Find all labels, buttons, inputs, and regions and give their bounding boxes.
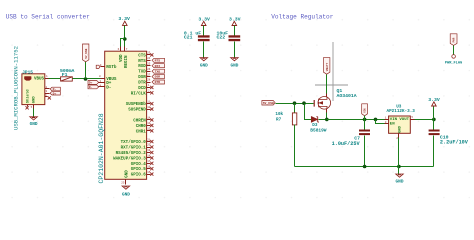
connector pin 2 stub <box>45 88 50 90</box>
svg-text:TXT/GPIO.0: TXT/GPIO.0 <box>121 140 147 145</box>
IC pin 18 WAKEUP/GPIO.3 stub <box>147 157 151 159</box>
svg-text:20: 20 <box>147 144 151 147</box>
no-connect X on GPIO.6 <box>150 173 153 176</box>
connector pin 4 ID stub <box>45 96 48 98</box>
connector pin 3 stub <box>45 93 50 95</box>
IC pin 11 SUSPENDb stub <box>147 103 151 105</box>
IC pin 12 CHR1 stub <box>147 130 151 132</box>
supply 3.3V at regulator output <box>432 102 437 106</box>
wire D3 branch down <box>305 104 312 120</box>
svg-text:CHR0: CHR0 <box>136 125 147 129</box>
svg-text:5V_USB: 5V_USB <box>263 101 274 105</box>
svg-text:13: 13 <box>147 122 151 125</box>
net flag VIN above C7 node <box>362 104 368 116</box>
IC pin 28 DTR stub <box>147 82 151 84</box>
Q1 drain pin stub <box>326 109 328 113</box>
frame mark horizontal line <box>315 84 348 86</box>
wire EN branch <box>376 120 385 124</box>
IC pin 16 GPIO.5 stub <box>147 168 151 170</box>
ground under IC <box>122 186 130 189</box>
svg-text:3.3V: 3.3V <box>428 97 440 103</box>
svg-text:AP2112K-3.3: AP2112K-3.3 <box>387 109 416 114</box>
svg-text:GND: GND <box>122 192 130 197</box>
svg-text:R7: R7 <box>276 117 282 122</box>
svg-text:GND: GND <box>399 125 403 133</box>
connector shield pin stub <box>27 105 29 107</box>
svg-text:12: 12 <box>147 128 151 131</box>
U3 pin 2 GND stub <box>398 134 400 138</box>
IC pin 26 TXD stub <box>147 71 151 73</box>
net label RXI <box>152 64 165 68</box>
svg-text:CHR1: CHR1 <box>136 130 147 134</box>
svg-text:REGIN: REGIN <box>125 55 129 68</box>
svg-text:TXO: TXO <box>155 69 161 73</box>
svg-text:RI/CLK: RI/CLK <box>131 91 147 96</box>
no-connect X on RS485/GPIO.2 <box>150 151 153 154</box>
net label RTS <box>152 58 165 62</box>
connector pin 1 VBUS stub <box>45 78 49 80</box>
wire 5V_USB to gate <box>276 103 314 105</box>
IC pin 14 CHREN stub <box>147 119 151 121</box>
svg-text:D+: D+ <box>89 81 93 85</box>
no-connect X on TXT/GPIO.0 <box>150 140 153 143</box>
svg-text:RXT/GPIO.1: RXT/GPIO.1 <box>121 146 147 151</box>
wire VBUS to fuse <box>49 78 61 80</box>
svg-text:Voltage Regulator: Voltage Regulator <box>271 13 334 20</box>
no-connect X on GPIO.4 <box>150 162 153 165</box>
svg-text:CTS: CTS <box>138 54 146 58</box>
svg-text:10k: 10k <box>275 112 283 117</box>
svg-text:D+: D+ <box>53 91 57 95</box>
svg-text:10: 10 <box>147 106 151 109</box>
svg-text:VBUS: VBUS <box>34 78 45 82</box>
wire junction to R7 <box>294 104 296 113</box>
wire C21 to ground <box>203 42 205 58</box>
junction C7 ground <box>363 165 367 169</box>
svg-text:RS485/GPIO.2: RS485/GPIO.2 <box>116 151 147 156</box>
U3 pin 5 VOUT stub <box>411 119 415 121</box>
svg-text:F1: F1 <box>62 72 68 78</box>
no-connect X on WAKEUP/GPIO.3 <box>150 156 153 159</box>
svg-text:3.3V: 3.3V <box>229 16 241 22</box>
ground under U3 <box>396 174 404 177</box>
junction R7 tap <box>293 101 297 105</box>
IC pin 3 D+ stub <box>99 82 105 84</box>
wire U3 VOUT to 3.3V node <box>415 119 434 121</box>
svg-text:25: 25 <box>121 182 125 185</box>
wire 3.3V to C21 <box>203 26 205 36</box>
IC pin 6 VDD stub <box>120 47 122 52</box>
no-connect X on CHR0 <box>150 124 153 127</box>
svg-text:11: 11 <box>147 100 151 103</box>
power flag PWR_FLAG <box>450 34 457 46</box>
svg-text:GPIO.5: GPIO.5 <box>131 168 147 172</box>
wire rail to ground symbol <box>398 167 400 175</box>
svg-text:RXI: RXI <box>155 64 161 68</box>
IC pin 1 DCD stub <box>147 87 151 89</box>
supply 3.3V above C22 <box>232 21 237 25</box>
net label TXO <box>152 69 165 73</box>
svg-text:D-: D- <box>106 85 111 90</box>
wire 3.3V arrow to VOUT node <box>433 107 435 120</box>
no-connect X on DCD <box>150 86 153 89</box>
no-connect X on ID pin <box>48 96 51 99</box>
wire fuse to IC VBUS <box>73 78 105 80</box>
wire C22 to ground <box>234 42 236 58</box>
svg-text:GND: GND <box>200 63 208 68</box>
net label DTR <box>152 80 165 84</box>
IC pin 10 SUSPEND stub <box>147 109 151 111</box>
no-connect X on shield pin <box>26 106 29 109</box>
svg-text:B5819W: B5819W <box>310 127 327 133</box>
supply 3.3V above IC <box>123 21 128 25</box>
supply 3.3V above C21 <box>201 21 206 25</box>
no-connect X on CHR1 <box>150 129 153 132</box>
wire branch to VDD pin <box>121 39 125 47</box>
IC pin 7 REGIN stub <box>124 47 126 52</box>
svg-text:GND: GND <box>126 170 130 178</box>
svg-text:3.3V: 3.3V <box>118 16 130 22</box>
wire U3 GND to rail <box>398 138 400 167</box>
svg-text:26: 26 <box>147 68 151 71</box>
wire drain node to U3 VIN <box>327 119 385 121</box>
wire VIN flag to node <box>364 116 366 120</box>
IC pin 8 VBUS stub <box>101 78 105 80</box>
ground under C22 <box>231 58 239 61</box>
IC pin 9 RSTb stub <box>101 66 105 68</box>
IC pin 27 DSR stub <box>147 76 151 78</box>
regulator U3 body <box>389 116 411 133</box>
wire VBATT to Q1 source <box>326 75 328 94</box>
wire VBUS junction up to flag <box>85 62 87 79</box>
svg-text:23: 23 <box>147 52 151 55</box>
svg-text:SUSPENDb: SUSPENDb <box>126 102 147 107</box>
svg-text:PWR_FLAG: PWR_FLAG <box>445 61 462 65</box>
svg-text:VBATT: VBATT <box>326 62 329 71</box>
svg-text:GPIO.6: GPIO.6 <box>131 174 147 178</box>
svg-text:PWR: PWR <box>453 37 456 42</box>
junction U3 ground <box>397 165 401 169</box>
svg-text:VIN: VIN <box>364 108 367 113</box>
wire ground rail <box>295 166 434 168</box>
capacitor C7 <box>359 130 370 136</box>
IC pin 4 D- stub <box>99 86 105 88</box>
PWR_FLAG pin circle <box>452 55 456 59</box>
USB logo icon <box>24 76 31 80</box>
fuse F1 <box>61 77 73 81</box>
svg-text:28: 28 <box>147 79 151 82</box>
svg-text:DSR: DSR <box>138 76 146 80</box>
U3 pin 1 VIN stub <box>385 119 389 121</box>
svg-text:GPIO.4: GPIO.4 <box>131 163 147 167</box>
wire R7 to ground rail <box>294 125 296 167</box>
no-connect X on CTS <box>150 53 153 56</box>
IC pin 17 GPIO.4 stub <box>147 163 151 165</box>
svg-text:18: 18 <box>147 155 151 158</box>
wire VIN node to C7 <box>364 120 366 130</box>
junction EN tap <box>374 118 378 122</box>
svg-text:RXD: RXD <box>138 65 146 69</box>
net label DSR <box>152 75 165 79</box>
svg-text:DTR: DTR <box>155 80 161 84</box>
junction VOUT node <box>432 118 436 122</box>
resistor R7 <box>292 113 296 125</box>
svg-text:TXD: TXD <box>138 71 146 75</box>
svg-text:GND: GND <box>396 179 404 184</box>
net label to IC D+ <box>88 81 99 85</box>
wire 3.3V to C22 <box>234 26 236 36</box>
wire VOUT node to C10 <box>433 120 435 130</box>
junction VDD branch <box>123 37 127 41</box>
no-connect X on CHREN <box>150 118 153 121</box>
junction C7 tap <box>363 118 367 122</box>
svg-text:5V_USB: 5V_USB <box>85 48 88 58</box>
no-connect X on SUSPENDb <box>150 102 153 105</box>
no-connect X on GPIO.5 <box>150 167 153 170</box>
svg-text:AO3401A: AO3401A <box>337 93 357 99</box>
supply flag 5V_USB (left) <box>83 44 89 62</box>
svg-text:DCD: DCD <box>138 87 146 91</box>
svg-text:C22: C22 <box>217 35 226 41</box>
tiny net flag on RSTb <box>96 65 100 68</box>
svg-text:DTR: DTR <box>138 82 146 86</box>
svg-text:VDD: VDD <box>120 54 124 62</box>
no-connect X on RXT/GPIO.1 <box>150 145 153 148</box>
transistor Q1 AO3401A <box>314 97 330 110</box>
svg-text:JP15: JP15 <box>22 70 33 75</box>
net flag VBATT above Q1 <box>324 58 330 75</box>
svg-text:SUSPEND: SUSPEND <box>128 109 146 113</box>
svg-text:USB to Serial converter: USB to Serial converter <box>6 13 90 20</box>
wire D3 to drain node <box>319 119 327 121</box>
IC pin 15 GPIO.6 stub <box>147 174 151 176</box>
junction drain/diode node <box>325 118 329 122</box>
net label to IC D- <box>88 85 99 89</box>
no-connect X on RI/CLK <box>150 91 153 94</box>
svg-text:25: 25 <box>147 62 151 65</box>
IC GND pin stub <box>125 180 127 185</box>
svg-text:17: 17 <box>147 160 151 163</box>
svg-text:21: 21 <box>147 138 151 141</box>
svg-text:2.2uF/10V: 2.2uF/10V <box>440 139 469 145</box>
capacitor C21 <box>198 35 210 41</box>
IC pin 23 CTS stub <box>147 54 151 56</box>
svg-text:USB_MICROB_PLUGCONN-11752: USB_MICROB_PLUGCONN-11752 <box>12 46 19 130</box>
capacitor C22 <box>229 35 241 41</box>
IC pin 24 RTS stub <box>147 60 151 62</box>
wire C10 to ground rail <box>433 136 435 167</box>
svg-text:EN: EN <box>390 122 395 126</box>
IC pin 13 CHR0 stub <box>147 125 151 127</box>
svg-text:D3: D3 <box>312 123 318 128</box>
net flag 5V_USB (right section) <box>262 101 275 106</box>
connector JP15 body <box>22 74 45 105</box>
no-connect X on SUSPEND <box>150 108 153 111</box>
svg-text:GND: GND <box>32 96 36 104</box>
ground under C21 <box>200 58 208 61</box>
svg-text:1.0uF/25V: 1.0uF/25V <box>332 141 361 147</box>
IC pin 19 RS485/GPIO.2 stub <box>147 152 151 154</box>
svg-text:14: 14 <box>147 117 151 120</box>
PWR_FLAG pin <box>453 46 455 55</box>
wire C7 to ground rail <box>364 136 366 167</box>
capacitor C10 <box>429 130 440 136</box>
svg-text:D-: D- <box>89 85 93 89</box>
wire connector GND <box>33 109 35 117</box>
U3 pin 3 EN stub <box>385 123 389 125</box>
svg-text:27: 27 <box>147 73 151 76</box>
svg-text:CHREN: CHREN <box>133 119 146 123</box>
svg-text:RTS: RTS <box>155 58 161 62</box>
junction D3 tap <box>302 101 306 105</box>
op-amp/IC U2 body CP2102N <box>105 51 147 179</box>
svg-text:C21: C21 <box>184 35 193 41</box>
svg-text:15: 15 <box>147 171 151 174</box>
svg-text:VOUT: VOUT <box>399 118 409 122</box>
svg-text:3.3V: 3.3V <box>198 16 210 22</box>
svg-text:Shield: Shield <box>25 89 30 103</box>
wire 3.3V down to REGIN pin <box>124 26 126 47</box>
svg-text:GND: GND <box>230 63 238 68</box>
IC pin 20 RXT/GPIO.1 stub <box>147 147 151 149</box>
IC pin 2 RI/CLK stub <box>147 92 151 94</box>
svg-text:RSTb: RSTb <box>106 65 117 70</box>
svg-text:CP2102N-A01-GQFN28: CP2102N-A01-GQFN28 <box>98 113 105 183</box>
IC pin 25 RXD stub <box>147 65 151 67</box>
frame mark vertical line <box>332 42 334 101</box>
svg-text:19: 19 <box>147 149 151 152</box>
junction VBUS node <box>84 77 88 81</box>
Q1 source pin stub <box>326 94 328 97</box>
net label D- (connector side) <box>50 87 60 91</box>
connector GND pin stub <box>33 105 35 109</box>
svg-text:16: 16 <box>147 165 151 168</box>
svg-text:WAKEUP/GPIO.3: WAKEUP/GPIO.3 <box>113 156 146 161</box>
net label D+ (connector side) <box>50 91 60 95</box>
ground under JP15 <box>30 117 38 120</box>
diode D3 <box>311 117 319 122</box>
IC pin 21 TXT/GPIO.0 stub <box>147 141 151 143</box>
svg-text:GND: GND <box>30 122 38 127</box>
svg-text:DSR: DSR <box>155 75 161 79</box>
wire Q1 drain down to VIN node <box>326 113 328 120</box>
svg-text:24: 24 <box>147 57 151 60</box>
svg-text:RTS: RTS <box>138 60 146 64</box>
